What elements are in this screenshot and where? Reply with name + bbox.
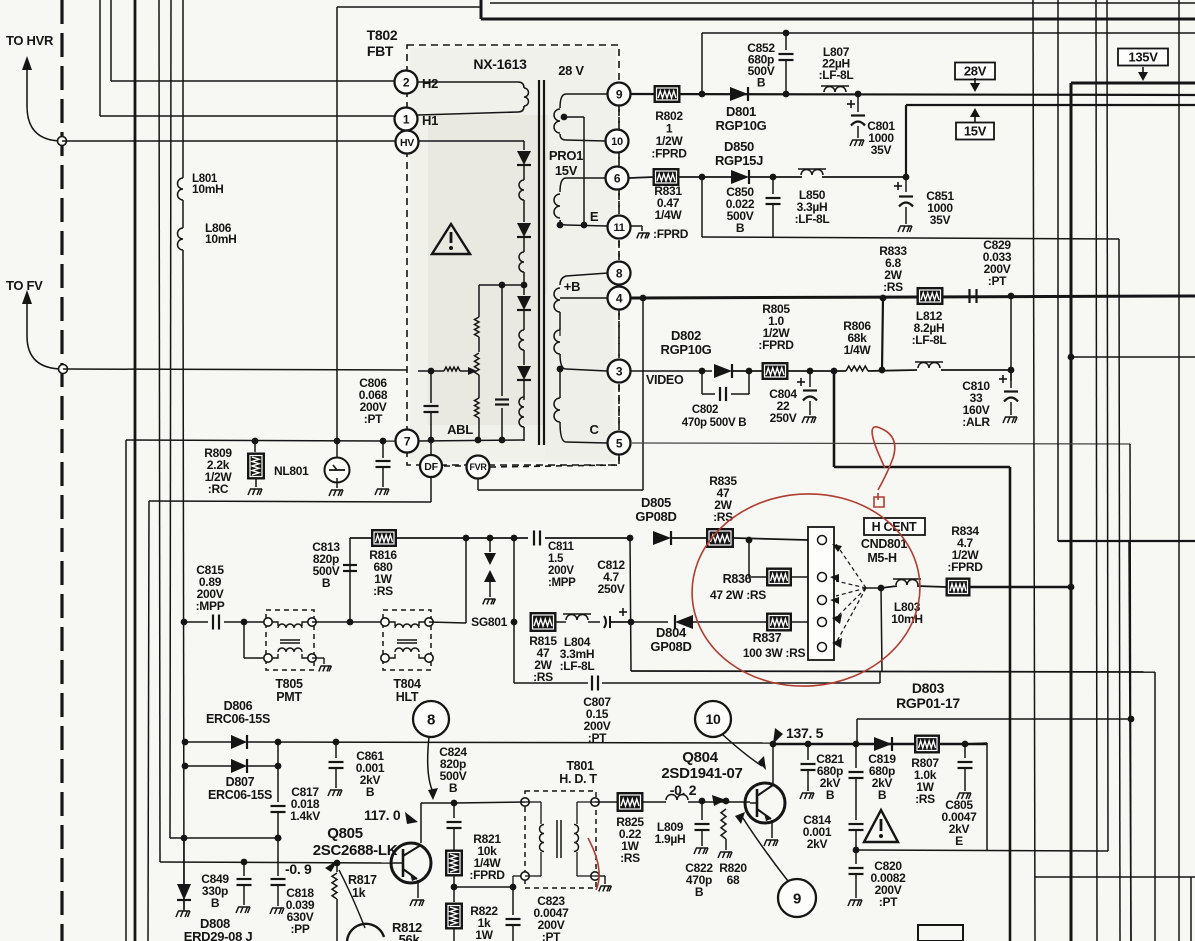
winding H2-H1 [418, 82, 524, 88]
node 137.5 dots [770, 741, 777, 748]
svg-text:B: B [322, 576, 331, 590]
wire TO HVR arrow [27, 66, 62, 141]
svg-text:ERD29-08 J: ERD29-08 J [184, 929, 253, 941]
svg-text:ABL: ABL [447, 422, 473, 437]
node R815 in [511, 619, 518, 626]
terminal 10 [606, 130, 629, 153]
potentiometer FBT focus [475, 353, 480, 375]
capacitor C802 loop [701, 371, 703, 394]
node C823 top [510, 884, 517, 891]
FBT box bottom dashes [444, 465, 466, 467]
svg-text:E: E [590, 209, 599, 224]
svg-text:D807: D807 [226, 775, 255, 789]
svg-text:H2: H2 [422, 76, 438, 91]
resistor R836 [748, 540, 750, 577]
svg-text:FBT: FBT [367, 43, 394, 59]
neon lamp NL801 spark gap [336, 441, 338, 458]
node FV junction [59, 365, 68, 374]
wire left loop edge [630, 538, 631, 671]
T805 pins [244, 621, 268, 623]
resistor R806 [846, 366, 868, 371]
ground R820 [718, 852, 732, 858]
winding 15V [560, 178, 605, 192]
diode D801 [730, 87, 748, 101]
wire rail x111 to H2 line [110, 0, 112, 81]
node L812 in [879, 367, 886, 374]
svg-text:NX-1613: NX-1613 [473, 56, 527, 72]
svg-text:1W: 1W [475, 928, 493, 941]
svg-text::MPP: :MPP [196, 599, 225, 613]
wire TO FV arrow [27, 300, 63, 369]
svg-text::RS: :RS [533, 670, 553, 684]
node C810 top [1008, 367, 1015, 374]
svg-text:C: C [589, 422, 599, 437]
winding +B [560, 273, 608, 285]
svg-text::FPRD: :FPRD [653, 227, 689, 241]
node D805 in [627, 535, 634, 542]
transformer T804 box [383, 610, 431, 670]
svg-text:135V: 135V [1128, 50, 1158, 65]
svg-text:GP08D: GP08D [650, 639, 691, 654]
svg-text:-0. 9: -0. 9 [285, 861, 312, 877]
inductor L803 [881, 586, 897, 588]
red annotation squiggle top [872, 427, 895, 490]
capacitor C807 [591, 676, 593, 691]
scan shading (decorative) [410, 48, 616, 462]
ground C801 [850, 140, 864, 146]
node D803 tap [1128, 716, 1135, 723]
capacitor C822 [701, 801, 703, 820]
node L803 in [878, 585, 885, 592]
capacitor C817 [277, 742, 279, 802]
wire top thin y4 [490, 2, 1195, 4]
svg-text:PMT: PMT [276, 690, 302, 704]
wire R807 return loop [965, 743, 987, 744]
pot wiper arrow [418, 370, 444, 372]
resistor R817 [336, 863, 338, 872]
wire rail x1179 [1178, 0, 1180, 941]
capacitor C823 [512, 887, 514, 915]
ground R809 [248, 489, 262, 495]
ground C804 [802, 417, 816, 423]
wire 137.5 rail [773, 743, 987, 745]
svg-text::RC: :RC [208, 482, 229, 496]
wire +B rail thick [631, 296, 1195, 298]
node C849 top [241, 859, 248, 866]
svg-text:10mH: 10mH [891, 612, 922, 626]
svg-text:M5-H: M5-H [867, 551, 897, 565]
svg-text:RGP01-17: RGP01-17 [896, 695, 960, 711]
wire HV line [62, 140, 524, 142]
terminal 8 [608, 262, 631, 285]
node ABL-7 dots [252, 438, 259, 445]
capacitor C849 [243, 862, 245, 876]
svg-text:T802: T802 [367, 27, 398, 43]
terminal 5 [608, 432, 631, 455]
wire rail x100 to H1 line [99, 0, 101, 116]
resistor R825 [595, 801, 617, 803]
node 702,94 [699, 91, 706, 98]
diode D806 [185, 741, 232, 743]
wire rail x1033 [1033, 0, 1035, 941]
capacitor C814 [849, 823, 864, 825]
wire D805 out [671, 537, 707, 539]
wire R815 riser [513, 538, 515, 622]
pointer 28V [970, 83, 980, 92]
bubble 9 arrow [741, 815, 788, 881]
svg-text::LF-8L: :LF-8L [819, 68, 854, 82]
Q804 emitter ground [771, 820, 773, 838]
node C804 top [787, 370, 846, 372]
svg-text:28 V: 28 V [558, 63, 584, 78]
bubble 8 arrow [428, 737, 433, 792]
svg-text:100 3W :RS: 100 3W :RS [743, 646, 806, 660]
svg-text:TO FV: TO FV [6, 278, 43, 293]
svg-text:ERC06-15S: ERC06-15S [206, 712, 270, 726]
svg-text:ERC06-15S: ERC06-15S [208, 788, 272, 802]
svg-text::PT: :PT [364, 412, 383, 426]
svg-text:10mH: 10mH [192, 182, 223, 196]
T805 ground [312, 657, 324, 659]
wire 28V rail [631, 94, 1195, 95]
bubble 10 arrow [722, 734, 762, 766]
wire R821 to T801 [454, 886, 513, 888]
resistor R802 [654, 86, 680, 103]
inductor L807 [824, 87, 846, 92]
svg-text::ALR: :ALR [962, 415, 990, 429]
pointer 15V [970, 108, 980, 117]
capacitor C806 [428, 368, 435, 375]
inductor L850 [749, 176, 802, 178]
svg-text:+B: +B [564, 279, 580, 294]
svg-text:FVR: FVR [469, 462, 487, 472]
capacitor C821 [807, 744, 809, 760]
capacitor C861 [335, 742, 337, 758]
svg-text:HV: HV [400, 137, 414, 149]
capacitor C806b [382, 441, 384, 458]
inductor L804 [556, 621, 566, 623]
ground spark gap [329, 490, 343, 496]
wire D806 out [247, 742, 773, 743]
ground C806b [375, 489, 389, 495]
svg-text:1/4W: 1/4W [655, 208, 683, 222]
diode D805 [653, 531, 671, 545]
svg-text:15V: 15V [964, 124, 987, 139]
svg-text:C802: C802 [692, 404, 718, 416]
svg-text:B: B [695, 885, 704, 899]
svg-text:56k: 56k [399, 932, 421, 941]
ground C821 [800, 793, 814, 799]
svg-text:Q804: Q804 [682, 749, 718, 766]
inductor L806 [178, 228, 184, 250]
svg-text::FPRD: :FPRD [758, 338, 794, 352]
svg-text:117. 0: 117. 0 [364, 807, 401, 823]
arrow 137.5 flag [773, 728, 783, 744]
svg-text:7: 7 [404, 434, 411, 448]
svg-text::FPRD: :FPRD [947, 560, 983, 574]
wire rail x135 thick [134, 0, 137, 941]
node C817 top [275, 739, 282, 746]
svg-text:3: 3 [616, 364, 623, 378]
resistor R831 [653, 169, 679, 186]
spark gap SG801 [489, 538, 491, 552]
bubble R812 circle [347, 924, 384, 941]
svg-text:1/4W: 1/4W [844, 343, 872, 357]
terminal HV [396, 131, 419, 154]
inductor L801 [178, 178, 184, 200]
bubble 10 [695, 701, 731, 737]
node C822 top [699, 798, 706, 805]
ground D808 [176, 911, 190, 917]
node C818 top [275, 835, 282, 842]
resistor R821 [446, 850, 463, 876]
page border (dashed) [60, 0, 63, 941]
svg-text::PP: :PP [290, 922, 309, 936]
svg-text:B: B [826, 788, 835, 802]
svg-text:B: B [366, 785, 375, 799]
svg-text:RGP15J: RGP15J [715, 153, 763, 168]
node D802 out [746, 368, 753, 375]
svg-text:1.5: 1.5 [548, 553, 564, 565]
svg-text::LF-8L: :LF-8L [912, 333, 947, 347]
red annotation tail [588, 838, 599, 890]
svg-text::MPP: :MPP [548, 577, 576, 589]
label 28V box [955, 63, 995, 80]
svg-text:D801: D801 [726, 104, 756, 119]
svg-text:D803: D803 [912, 680, 945, 696]
arrow -0.9 [325, 860, 338, 872]
wire rail x125 from ABL line [125, 440, 127, 941]
node D807 in [182, 763, 189, 770]
node C850 top [770, 174, 777, 181]
capacitor C851 [894, 185, 902, 187]
wire x171 to C817 [170, 837, 278, 839]
wire x183 bottom [183, 838, 185, 884]
svg-text:10: 10 [611, 136, 623, 148]
node L807 out [855, 91, 862, 98]
coil chain 3 [519, 330, 524, 350]
wire C852 top y33 [702, 32, 1195, 34]
svg-text:28V: 28V [964, 64, 987, 79]
svg-text::FPRD: :FPRD [651, 147, 687, 161]
svg-text:DF: DF [424, 461, 438, 473]
svg-text:D804: D804 [656, 625, 687, 640]
coil chain 2 [519, 252, 524, 272]
wire top thin y7 [337, 6, 482, 8]
node chain mid [521, 282, 528, 289]
wire rail x148 from DF line [148, 501, 149, 941]
wire FVR to +B return [477, 479, 479, 490]
wire rail x1131 [1129, 541, 1131, 941]
wire rail x171 [170, 0, 171, 838]
svg-text:R817: R817 [348, 873, 377, 887]
svg-text:250V: 250V [770, 411, 797, 425]
node C815 in [181, 619, 188, 626]
wire 15V riser [905, 105, 907, 177]
svg-text:2SC2688-LK: 2SC2688-LK [313, 842, 398, 859]
ground terminal 11 [631, 225, 642, 227]
box fragment bottom [918, 925, 963, 941]
node D804 in [628, 619, 635, 626]
red annotation mark [874, 493, 884, 507]
svg-text:VIDEO: VIDEO [646, 373, 684, 387]
wire L812 out [941, 369, 1011, 371]
wire R816 out [396, 537, 466, 539]
diode D802 [714, 364, 732, 378]
svg-text:HLT: HLT [396, 690, 419, 704]
terminal 2 [395, 71, 418, 94]
svg-text:T801: T801 [566, 759, 594, 773]
capacitor C824 sym [453, 803, 455, 818]
wire y357 branch [1068, 354, 1075, 361]
capacitor C852 [783, 30, 790, 37]
arrow 117.0 [405, 812, 418, 824]
resistor R816 [350, 537, 372, 539]
resistor FBT bleeder top [478, 285, 480, 317]
resistor R833 [917, 288, 943, 305]
capacitor C829 [968, 289, 970, 303]
terminal 7 [396, 430, 419, 453]
svg-text:200V: 200V [548, 565, 574, 577]
svg-text:1.4kV: 1.4kV [290, 809, 320, 823]
wire +B to L812 node [882, 298, 883, 370]
wire rail x1120 [1119, 239, 1120, 941]
svg-text:-0. 2: -0. 2 [670, 782, 697, 798]
svg-text:H. D. T: H. D. T [559, 772, 597, 786]
resistor R807 [915, 735, 940, 753]
svg-text::PT: :PT [542, 930, 561, 941]
wire Q805 base rail [159, 861, 161, 863]
transistor Q805 [391, 843, 431, 883]
svg-text:470p 500V B: 470p 500V B [682, 417, 746, 429]
svg-text:R836: R836 [723, 572, 752, 586]
svg-text:D850: D850 [724, 139, 754, 154]
node D802 in [699, 368, 706, 375]
terminal 1 [395, 108, 418, 131]
capacitor C818 [277, 838, 279, 876]
capacitor C804 [797, 381, 805, 383]
red annotation ellipse [686, 486, 927, 693]
wire rail x1096 [1096, 0, 1097, 941]
capacitor C805 [964, 744, 966, 758]
Q804 collector [772, 744, 774, 785]
node winding3 bottom [557, 366, 564, 373]
terminal 3 [608, 360, 631, 383]
wire rail x1107 [1107, 0, 1108, 851]
T804 windings [389, 622, 395, 626]
node C813 bottom [347, 619, 354, 626]
svg-text:GP08D: GP08D [635, 509, 676, 524]
bubble 9 [778, 879, 816, 917]
ground C820 [848, 900, 862, 906]
node C817 bottom [275, 835, 282, 842]
svg-text:NL801: NL801 [274, 464, 309, 478]
wire FV line [63, 369, 407, 370]
capacitor C819 [855, 744, 857, 768]
node top wire dots [463, 535, 470, 542]
svg-text:D805: D805 [641, 495, 671, 510]
svg-text:D802: D802 [671, 328, 701, 343]
capacitor C813 [349, 560, 351, 622]
resistor FBT bleeder bottom [475, 398, 480, 418]
wire D804 to R837 [692, 621, 767, 623]
svg-text:15V: 15V [555, 163, 578, 178]
capacitor FBT internal [501, 285, 503, 396]
node D806 in [182, 739, 189, 746]
resistor R834 [946, 578, 970, 596]
wire T801 top to collector node [454, 802, 525, 803]
warning triangle FBT [432, 224, 470, 254]
T801 right ground [595, 875, 605, 877]
svg-text::PT: :PT [988, 274, 1007, 288]
diode chain D2 [517, 223, 531, 237]
svg-text:D806: D806 [224, 699, 253, 713]
node HVR junction [58, 137, 67, 146]
node R835 out [734, 538, 808, 540]
inductor L809 [643, 801, 666, 803]
wire B rail y237 [701, 177, 703, 237]
resistor R820 [721, 809, 726, 839]
svg-text:9: 9 [793, 890, 801, 907]
diode D804 [631, 621, 668, 623]
diode chain D1 [517, 151, 531, 165]
winding 28V [560, 94, 607, 108]
ground C861 [328, 790, 342, 796]
pointer 135V [1138, 72, 1148, 81]
resistor R822 [453, 887, 455, 902]
node C814 bottom [853, 847, 860, 854]
transformer T801 box [525, 791, 596, 888]
ground C805 [957, 793, 971, 799]
diode D803 [874, 737, 892, 751]
T805 windings [272, 622, 278, 626]
svg-text:E: E [955, 834, 963, 848]
svg-text:B: B [449, 781, 458, 795]
wire T804 out riser [429, 622, 466, 623]
svg-text::LF-8L: :LF-8L [560, 659, 595, 673]
svg-text:4: 4 [616, 291, 623, 305]
wire C807 branch [513, 622, 515, 683]
resistor R815 [530, 613, 556, 632]
svg-text:2: 2 [403, 75, 410, 89]
svg-text:10mH: 10mH [205, 232, 236, 246]
inductor L812 [868, 370, 917, 371]
wire ABL line [126, 440, 395, 441]
svg-text:B: B [757, 76, 766, 90]
node T805 bypass [241, 619, 248, 626]
svg-text:8: 8 [616, 266, 623, 280]
ground C849 [236, 907, 250, 913]
wire T805-T804 [312, 621, 384, 623]
transformer T802 FBT box (dashed) [407, 45, 619, 465]
svg-text:1.9µH: 1.9µH [655, 832, 686, 846]
label H CENT box [864, 518, 925, 535]
node R821 out [451, 884, 458, 891]
transformer core [538, 80, 540, 445]
svg-text:47 2W :RS: 47 2W :RS [710, 588, 766, 602]
node E junction [557, 222, 564, 229]
svg-text:PRO1: PRO1 [549, 148, 583, 163]
wire rail x159 [159, 0, 160, 862]
wire 15V rail from terminal 6 [629, 177, 654, 178]
ground C810 [1003, 417, 1017, 423]
wire C line y443 [632, 443, 1130, 444]
svg-text:1: 1 [403, 112, 410, 126]
svg-text:T805: T805 [275, 677, 303, 691]
warning triangle 2 [864, 810, 898, 842]
transformer T805 box [266, 610, 314, 670]
terminal 4 [608, 287, 631, 310]
